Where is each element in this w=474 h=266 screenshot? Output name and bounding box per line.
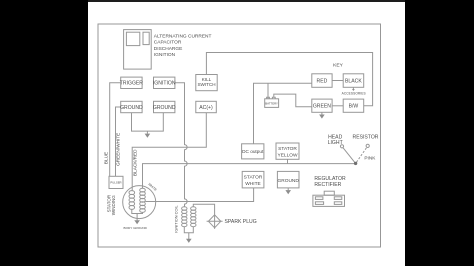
ignition coil primary winding <box>182 207 187 210</box>
wire ignition coil secondary to spark plug <box>193 204 214 215</box>
wire AC(+) to stator charge coil BLACK/RED <box>132 113 206 191</box>
box STATOR YELLOW <box>276 143 299 159</box>
battery terminal ticks <box>267 97 276 99</box>
svg-text:STATOR: STATOR <box>244 175 263 181</box>
svg-text:WINDING: WINDING <box>111 195 116 215</box>
box key B/W <box>343 99 364 112</box>
wire junction to head light <box>343 148 356 164</box>
head light terminal circle <box>340 145 343 148</box>
svg-text:PULSER: PULSER <box>110 181 121 185</box>
top letterbox strip <box>0 0 474 2</box>
svg-text:GREEN: GREEN <box>313 104 331 110</box>
svg-text:GROUND: GROUND <box>153 105 176 111</box>
CDI inner window right <box>143 32 149 44</box>
regulator rectifier connector body <box>313 195 345 206</box>
svg-text:DC output: DC output <box>242 149 264 154</box>
ground stub under GREEN <box>321 112 323 114</box>
box AC(+) <box>196 101 217 112</box>
svg-text:IGNITION: IGNITION <box>154 52 176 58</box>
box GROUND (stator) <box>277 171 299 188</box>
battery <box>265 99 279 108</box>
resistor terminal circle <box>366 144 369 147</box>
svg-text:ALTERNATING CURRENT: ALTERNATING CURRENT <box>154 33 212 39</box>
ground stub under GROUND box <box>287 188 289 190</box>
box key RED <box>312 74 332 88</box>
svg-text:GROUND: GROUND <box>278 178 300 184</box>
wire RED to BLACK <box>332 80 343 82</box>
box DC output <box>242 144 264 159</box>
box IGNITION <box>154 77 175 88</box>
accessories arrow tip <box>352 89 355 91</box>
svg-text:SWITCH: SWITCH <box>197 82 215 87</box>
box KILL SWITCH <box>196 75 217 91</box>
junction node dot (headlight/resistor/yellow bus) <box>354 162 357 165</box>
wire stator yellow box stub <box>287 159 289 163</box>
ground arrow under stator GROUND box <box>285 190 291 194</box>
body ground arrow under stator <box>134 220 140 224</box>
ground arrow under key GREEN <box>319 115 325 119</box>
wire GREEN/WHITE (ground to pulser) <box>116 107 121 176</box>
wire CDI grounds common <box>132 113 164 134</box>
wire DC output feed to key RED <box>254 83 312 144</box>
wire battery negative tee <box>267 83 269 99</box>
CDI title text <box>154 33 212 58</box>
svg-text:DISCHARGE: DISCHARGE <box>154 46 183 52</box>
wire stator lighting coil to stator yellow bus <box>143 164 356 189</box>
wire stator coils to body ground <box>132 209 143 220</box>
svg-text:RED: RED <box>317 78 328 84</box>
wire KILL SWITCH to key B/W <box>206 53 372 106</box>
svg-text:BODY GROUND: BODY GROUND <box>124 226 148 230</box>
ground arrow under CDI grounds <box>145 134 151 138</box>
svg-text:TRIGGER: TRIGGER <box>120 81 144 87</box>
svg-text:PINK: PINK <box>364 156 376 161</box>
svg-text:LIGHT: LIGHT <box>328 140 343 146</box>
wire GREEN to B/W <box>332 105 343 107</box>
box GROUND (CDI pin 1) <box>121 101 142 112</box>
wire stator white tap line <box>145 188 253 202</box>
svg-text:WHITE: WHITE <box>245 181 260 187</box>
wire IGNITION to ignition coil (with three crossover hops) <box>175 83 187 207</box>
wire ignition coil windings to ground <box>184 227 193 239</box>
svg-text:BLACK: BLACK <box>345 78 362 84</box>
svg-text:SPARK PLUG: SPARK PLUG <box>225 219 257 225</box>
pulser coil box PULSER <box>109 176 123 188</box>
stator flywheel circle <box>123 186 156 219</box>
box GROUND (CDI pin 2) <box>154 101 175 112</box>
box key GREEN <box>312 99 332 112</box>
ignition coil secondary winding <box>191 207 196 210</box>
svg-text:IGNITION: IGNITION <box>153 81 176 87</box>
svg-text:STATOR: STATOR <box>278 146 297 152</box>
svg-text:BATTERY: BATTERY <box>265 101 278 105</box>
svg-text:IGNITION COIL: IGNITION COIL <box>173 204 178 232</box>
svg-text:GROUND: GROUND <box>120 105 143 111</box>
svg-text:YELLOW: YELLOW <box>278 153 298 159</box>
dashed wire junction to resistor <box>357 147 367 162</box>
accessories stub arrow <box>352 87 354 89</box>
svg-text:RESISTOR: RESISTOR <box>353 134 379 140</box>
svg-text:KEY: KEY <box>333 62 344 68</box>
svg-text:BLUE: BLUE <box>103 152 108 164</box>
svg-text:GREEN/WHITE: GREEN/WHITE <box>116 133 121 166</box>
svg-text:AC(+): AC(+) <box>199 105 213 111</box>
box TRIGGER <box>121 77 142 88</box>
CDI inner window left <box>126 32 139 45</box>
svg-text:ACCESSORIES: ACCESSORIES <box>342 92 366 96</box>
spark plug symbol <box>207 215 223 229</box>
box STATOR WHITE <box>242 171 264 188</box>
left letterbox bar <box>0 0 88 266</box>
regulator rectifier connector tab <box>324 191 334 195</box>
label REGULATOR RECTIFIER <box>314 176 346 188</box>
stator charge coil winding <box>129 191 135 195</box>
box key BLACK <box>343 74 364 88</box>
CDI unit box <box>124 30 152 70</box>
schematic border frame <box>98 24 381 247</box>
svg-text:B/W: B/W <box>349 104 359 110</box>
svg-text:BLACK/RED: BLACK/RED <box>133 149 138 176</box>
svg-text:RECTIFIER: RECTIFIER <box>314 182 341 188</box>
svg-text:CAPACITOR: CAPACITOR <box>154 40 182 46</box>
ground arrow under ignition coil <box>186 239 192 243</box>
regulator rectifier pin slots <box>315 197 323 200</box>
wire BLUE (trigger to pulser) <box>110 83 121 177</box>
right letterbox bar <box>405 0 474 266</box>
wire battery positive to key GREEN <box>274 94 312 107</box>
stator lighting coil winding <box>140 188 146 192</box>
